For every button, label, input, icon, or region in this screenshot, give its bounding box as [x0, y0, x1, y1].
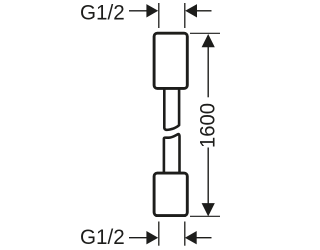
svg-text:G1/2: G1/2	[80, 226, 125, 249]
top dimension right arrowhead	[185, 4, 197, 17]
bottom dimension left arrowhead	[146, 231, 158, 244]
wire: top dimension leader left shaft	[129, 10, 147, 12]
bottom dimension right extension line	[184, 222, 186, 246]
svg-text:G1/2: G1/2	[80, 2, 125, 25]
bottom dimension left extension line	[158, 222, 160, 246]
wire: 1600 dimension line lower segment	[207, 148, 209, 205]
wire: bottom dimension leader right shaft	[197, 237, 212, 239]
top hose nut	[154, 33, 187, 88]
wire: 1600 dimension line upper segment	[207, 47, 209, 98]
1600 dimension up arrowhead	[202, 34, 215, 47]
1600 dimension top extension line	[190, 32, 220, 34]
svg-text:1600: 1600	[197, 103, 220, 148]
top dimension right extension line	[184, 3, 186, 28]
top hose connector tube with break	[164, 90, 179, 130]
top dimension left extension line	[158, 3, 160, 28]
wire: bottom dimension leader left shaft	[129, 237, 147, 239]
wire: top dimension leader right shaft	[197, 10, 212, 12]
bottom dimension right arrowhead	[185, 231, 197, 244]
1600 dimension down arrowhead	[202, 203, 215, 216]
bottom hose nut	[154, 173, 187, 216]
bottom hose connector tube with break	[164, 134, 180, 172]
top dimension left arrowhead	[146, 4, 158, 17]
1600 dimension bottom extension line	[190, 215, 220, 217]
